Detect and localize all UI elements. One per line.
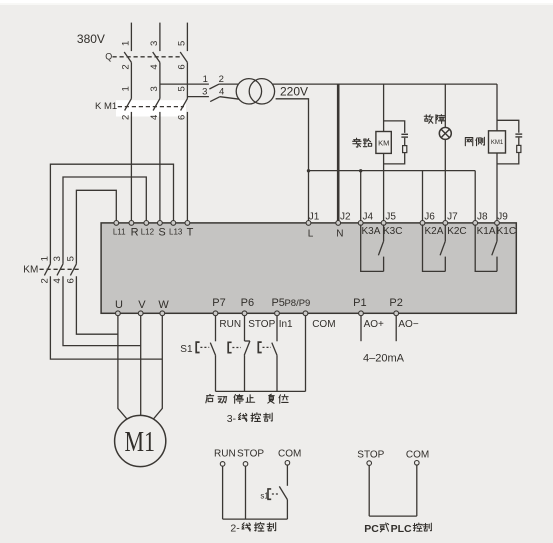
svg-text:KM: KM <box>378 138 389 147</box>
svg-text:RUN: RUN <box>214 449 236 460</box>
svg-text:J2: J2 <box>340 212 351 223</box>
svg-text:2-: 2- <box>230 523 240 535</box>
svg-text:K1C: K1C <box>497 226 516 237</box>
svg-text:STOP: STOP <box>357 450 384 461</box>
svg-text:U: U <box>115 299 123 311</box>
svg-text:4–20mA: 4–20mA <box>363 352 405 364</box>
svg-text:T: T <box>187 226 194 238</box>
svg-text:PC: PC <box>364 523 379 535</box>
svg-text:N: N <box>336 229 343 240</box>
svg-text:S1: S1 <box>180 344 193 355</box>
svg-text:Q: Q <box>105 51 112 61</box>
svg-text:380V: 380V <box>77 32 105 46</box>
svg-text:J9: J9 <box>497 212 508 223</box>
svg-text:KM1: KM1 <box>491 140 504 146</box>
svg-text:K2C: K2C <box>447 226 466 237</box>
svg-text:J1: J1 <box>309 212 320 223</box>
svg-text:4: 4 <box>149 64 160 69</box>
svg-text:S: S <box>158 226 165 238</box>
svg-text:3-: 3- <box>227 413 237 425</box>
svg-text:STOP: STOP <box>248 319 275 330</box>
svg-text:P2: P2 <box>389 297 402 309</box>
svg-text:In1: In1 <box>279 319 293 330</box>
svg-text:220V: 220V <box>280 85 308 99</box>
svg-text:L: L <box>308 229 314 240</box>
svg-text:P7: P7 <box>212 297 225 309</box>
svg-text:3: 3 <box>149 86 160 91</box>
svg-text:2: 2 <box>121 115 132 120</box>
svg-text:AO+: AO+ <box>364 319 384 330</box>
svg-text:1: 1 <box>121 41 132 46</box>
svg-text:COM: COM <box>312 319 335 330</box>
svg-text:2: 2 <box>40 278 51 283</box>
svg-text:K3C: K3C <box>383 226 402 237</box>
svg-text:COM: COM <box>278 449 301 460</box>
svg-text:M1: M1 <box>125 427 156 458</box>
svg-text:J4: J4 <box>363 212 374 223</box>
svg-text:J8: J8 <box>477 212 488 223</box>
svg-text:4: 4 <box>149 115 160 120</box>
svg-text:P5: P5 <box>271 297 284 309</box>
svg-text:P1: P1 <box>353 297 366 309</box>
svg-text:W: W <box>158 299 169 311</box>
svg-text:P6: P6 <box>241 297 254 309</box>
svg-text:COM: COM <box>406 450 429 461</box>
svg-text:P8/P9: P8/P9 <box>284 298 310 309</box>
svg-text:3: 3 <box>52 256 63 261</box>
svg-text:4: 4 <box>52 278 63 283</box>
svg-text:2: 2 <box>219 74 224 85</box>
svg-text:6: 6 <box>177 64 188 69</box>
svg-text:KM: KM <box>23 265 38 276</box>
svg-text:5: 5 <box>66 256 77 261</box>
svg-text:K3A: K3A <box>362 226 381 237</box>
svg-text:V: V <box>138 299 146 311</box>
svg-text:4: 4 <box>219 86 224 97</box>
svg-text:1: 1 <box>121 86 132 91</box>
svg-text:AO−: AO− <box>398 319 418 330</box>
svg-text:RUN: RUN <box>219 319 241 330</box>
svg-text:L11: L11 <box>113 227 126 236</box>
svg-text:K2A: K2A <box>425 226 444 237</box>
svg-text:K M1: K M1 <box>95 101 117 112</box>
svg-text:L13: L13 <box>169 227 183 236</box>
svg-text:STOP: STOP <box>237 449 264 460</box>
svg-text:5: 5 <box>177 86 188 91</box>
svg-text:6: 6 <box>177 115 188 120</box>
svg-text:2: 2 <box>121 64 132 69</box>
svg-text:J6: J6 <box>424 212 435 223</box>
svg-text:J5: J5 <box>385 212 396 223</box>
svg-text:3: 3 <box>202 86 207 97</box>
svg-text:6: 6 <box>66 278 77 283</box>
svg-text:5: 5 <box>177 41 188 46</box>
svg-text:L12: L12 <box>141 227 155 236</box>
svg-text:1: 1 <box>40 256 51 261</box>
svg-text:J7: J7 <box>447 212 458 223</box>
svg-text:PLC: PLC <box>391 523 412 535</box>
svg-text:R: R <box>131 226 139 238</box>
svg-text:1: 1 <box>203 74 208 85</box>
svg-text:K1A: K1A <box>477 226 496 237</box>
svg-text:3: 3 <box>149 41 160 46</box>
